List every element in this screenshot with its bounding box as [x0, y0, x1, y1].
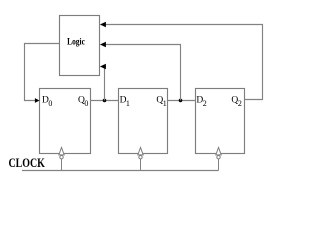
wire: net Q1 from FF1 to D2 — [168, 100, 196, 102]
junction dot on net Q0 — [103, 99, 107, 103]
svg-text:0: 0 — [48, 99, 52, 108]
wire: Q1 feedback up and left to Logic input 2 — [105, 45, 181, 101]
svg-text:CLOCK: CLOCK — [9, 156, 46, 170]
arrowhead into Logic input 3 — [100, 64, 106, 69]
arrowhead into Logic input 2 — [100, 42, 106, 47]
svg-text:1: 1 — [163, 99, 167, 108]
svg-text:1: 1 — [126, 99, 130, 108]
flip-flop FF1 (D1/Q1) — [119, 89, 168, 154]
arrowhead into D0 — [35, 98, 40, 103]
wire: clock bus — [22, 170, 219, 172]
clock wedge (edge-trigger symbol) FF2 — [216, 148, 221, 159]
flip-flop FF2 (D2/Q2) — [196, 89, 245, 154]
logic block U1 (combinational "Logic" box) — [60, 16, 100, 76]
clock wedge (edge-trigger symbol) FF0 — [59, 148, 64, 159]
wire: clock stub to FF1 — [140, 148, 142, 171]
wire: clock stub to FF0 — [61, 148, 63, 171]
svg-text:2: 2 — [238, 99, 242, 108]
svg-text:Logic: Logic — [67, 37, 85, 47]
wire: clock stub to FF2 — [218, 148, 220, 171]
wire: Q0 feedback up to Logic input 3 — [104, 67, 106, 101]
arrowhead into Logic input 1 — [100, 22, 106, 27]
flip-flop FF0 (D0/Q0) — [40, 89, 91, 154]
junction dot on net Q1 — [179, 99, 183, 103]
wire: Logic output left, down to D0 input — [25, 44, 60, 101]
svg-text:0: 0 — [84, 99, 88, 108]
wire: net Q2 from FF2 right, up and left to Logic input 1 — [105, 25, 263, 100]
clock wedge (edge-trigger symbol) FF1 — [138, 148, 143, 159]
wire: net Q0 from FF0 to D1 — [91, 100, 119, 102]
svg-text:2: 2 — [203, 99, 207, 108]
